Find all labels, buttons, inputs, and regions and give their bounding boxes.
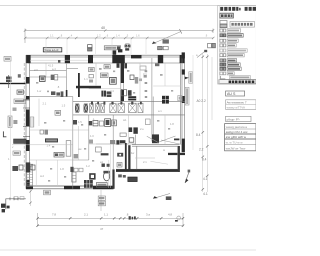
interior label F box — [40, 76, 46, 81]
mid boxes e — [130, 75, 138, 84]
svg-text:1.4: 1.4 — [116, 34, 120, 38]
left wall outer dashed face — [23, 63, 25, 186]
svg-text:w.2: w.2 — [40, 174, 45, 178]
heavy property line left — [0, 83, 25, 84]
stairs against left wall lower — [27, 164, 33, 186]
legend row 1 — [220, 29, 241, 32]
mid cluster b — [121, 89, 131, 95]
legend row 6 — [220, 54, 244, 57]
legend title row — [220, 7, 256, 11]
window sill line — [30, 59, 88, 61]
legend row 11 — [221, 76, 251, 79]
svg-text:a1: a1 — [100, 160, 103, 164]
legend inner border — [218, 6, 220, 85]
svg-text:2.0: 2.0 — [34, 68, 38, 72]
corridor dark wall — [125, 143, 127, 169]
legend header symbol + note box — [220, 21, 255, 28]
right ledge — [168, 153, 185, 155]
legend row 5 — [220, 49, 247, 52]
bottom-right room walls — [132, 145, 179, 170]
interior dark wall segments — [66, 63, 124, 101]
svg-text:.4w: .4w — [130, 151, 134, 155]
kitchen dark cluster top — [128, 96, 169, 104]
bottom-center room fixtures — [72, 160, 110, 188]
svg-text:1.1: 1.1 — [50, 34, 54, 38]
tiny glyph f — [139, 79, 142, 82]
bottom-right leader — [153, 194, 171, 201]
top dim small numbers — [50, 34, 208, 38]
speckle marks — [36, 68, 173, 182]
top small symbol pair 1 — [88, 45, 92, 51]
svg-text:2.4: 2.4 — [110, 89, 114, 93]
right info box B — [226, 100, 256, 110]
sheet top border — [0, 5, 256, 6]
sheet bottom border — [0, 250, 256, 251]
svg-text:p/bup- P*-: p/bup- P*- — [227, 117, 241, 121]
left wall door symbols row — [12, 162, 35, 172]
svg-text:1.8: 1.8 — [170, 122, 174, 126]
mid small boxes d — [89, 75, 93, 83]
svg-text:1.2: 1.2 — [86, 164, 90, 168]
left margin CtO box — [17, 90, 24, 94]
bottom wall — [26, 186, 114, 189]
svg-text:awbgn RU 4 ww: awbgn RU 4 ww — [226, 130, 249, 134]
svg-text:1.5: 1.5 — [78, 120, 82, 124]
right wall piers — [182, 52, 185, 152]
right diagonal mark — [185, 170, 190, 183]
bottom dimension line 2 — [38, 225, 184, 227]
central-lower fixture boxes — [66, 119, 150, 159]
svg-text:1.2: 1.2 — [97, 34, 101, 38]
svg-text:1.6: 1.6 — [136, 34, 140, 38]
svg-text:1.1: 1.1 — [84, 77, 88, 81]
legend row 7 — [220, 59, 237, 62]
interior wall verticals — [67, 58, 154, 189]
bottom jog wall — [112, 169, 114, 188]
svg-text:8.4: 8.4 — [202, 158, 207, 162]
svg-text:41.5: 41.5 — [48, 63, 54, 67]
svg-text:w1: w1 — [123, 118, 127, 122]
svg-text:1.1: 1.1 — [104, 213, 108, 217]
bottom dim1 numbers — [52, 213, 172, 217]
window mark — [58, 60, 60, 63]
legend row 2 — [220, 34, 243, 38]
svg-text:3.a: 3.a — [146, 213, 150, 217]
svg-text:4.1: 4.1 — [203, 177, 208, 181]
interior box b — [100, 73, 108, 78]
left wall lines — [26, 55, 30, 189]
interior box c — [140, 66, 146, 70]
property line cross symbol — [6, 75, 12, 88]
right dim ticks — [202, 56, 209, 191]
left margin vertical box — [8, 116, 12, 127]
legend row 9 — [220, 67, 241, 70]
svg-text:w. w TU-w w: w. w TU-w w — [226, 140, 244, 144]
legend row 10 — [220, 72, 234, 75]
label box Sww a.Lvl — [43, 48, 62, 53]
top small box — [126, 44, 130, 47]
box right of jog — [117, 163, 122, 168]
building outer top wall lines — [26, 55, 185, 63]
extension ticks above top wall — [46, 38, 146, 54]
svg-text:47: 47 — [100, 227, 104, 231]
scattered tiny texts — [8, 67, 174, 178]
bottom dim1 ticks — [36, 217, 184, 219]
hatch boxes in band — [75, 104, 88, 113]
mid dark cluster a — [101, 91, 111, 97]
right title block table — [225, 124, 256, 151]
svg-text:2.2: 2.2 — [199, 148, 204, 152]
svg-text:wwwg jawrww.a: wwwg jawrww.a — [226, 125, 248, 129]
svg-text:1.0: 1.0 — [90, 134, 94, 138]
right small box — [178, 96, 182, 101]
interior box a — [89, 67, 95, 71]
top dark glyph pair — [113, 49, 123, 55]
closet partition line — [38, 99, 40, 126]
boxes top of bottom room — [74, 168, 83, 172]
right wing faint lines — [153, 63, 180, 86]
left wall ticks — [23, 100, 30, 137]
dark fixture box bottom room — [102, 164, 105, 167]
interior wall horizontals — [30, 69, 136, 161]
dark label strip mid-left — [45, 138, 58, 142]
bottom-right room right dark wall — [178, 146, 180, 172]
svg-text:1.4: 1.4 — [47, 144, 51, 148]
right outside vertical label box 2 — [185, 87, 189, 105]
label ERE dark — [128, 177, 137, 182]
svg-text:4.8: 4.8 — [168, 213, 172, 217]
band top scribble marks — [91, 102, 142, 105]
top dark pair right — [125, 45, 131, 51]
dark cluster corridor top — [116, 140, 125, 144]
label box below mid-left — [54, 152, 64, 157]
left vertical dim line — [10, 62, 12, 198]
right dim labels — [196, 99, 208, 181]
bottom-right heavy edge — [116, 169, 179, 172]
legend-side small boxes — [208, 43, 216, 47]
svg-text:1.5: 1.5 — [62, 104, 66, 108]
legend row 8 — [220, 63, 240, 66]
interior light room lines — [30, 63, 166, 160]
left margin n glyphs — [18, 74, 21, 77]
room partition light — [109, 145, 111, 188]
room divider light 2 — [57, 160, 59, 186]
right info box A — [226, 91, 245, 96]
corridor light line — [128, 115, 130, 145]
svg-text:40: 40 — [101, 26, 105, 30]
left tiny box — [13, 108, 17, 111]
right info box C — [226, 116, 251, 121]
left margin dark box WATWR — [14, 139, 27, 143]
bottom-right room top-right tick — [174, 139, 179, 141]
svg-text:A0 2.2: A0 2.2 — [197, 99, 206, 103]
right outside vertical label box 1 — [189, 72, 193, 83]
top dimension line 1 — [25, 29, 213, 44]
interior box mid box55 — [55, 110, 61, 115]
svg-text:Aw wwwwwu 7: Aw wwwwwu 7 — [227, 101, 247, 105]
label below left-bottom — [44, 190, 51, 195]
legend bottom band — [219, 80, 256, 84]
interior cluster mid-left — [51, 91, 63, 97]
svg-text:8.4: 8.4 — [196, 133, 201, 137]
svg-text:a.1: a.1 — [158, 109, 162, 113]
svg-text:a.4: a.4 — [52, 67, 56, 71]
dark marks left of room wall — [70, 167, 73, 172]
top leader annotation — [152, 29, 182, 44]
central thick hatched wall band — [73, 101, 185, 115]
extension line right of wall — [192, 55, 194, 150]
bottom-center vertical dim — [98, 190, 105, 211]
left margin small box — [13, 120, 17, 124]
left margin box 2 — [13, 151, 20, 155]
small boxes above strip — [40, 130, 48, 135]
svg-text:4.1: 4.1 — [203, 192, 208, 196]
bottom-left small ticks on step — [10, 197, 18, 200]
wall box small — [73, 120, 77, 125]
svg-text:2.1: 2.1 — [84, 213, 88, 217]
svg-text:2.1: 2.1 — [143, 160, 147, 164]
svg-text:3.1: 3.1 — [143, 72, 147, 76]
svg-text:uw: uw — [78, 148, 81, 151]
legend row 4 — [220, 44, 236, 47]
legend dark code box — [220, 13, 234, 18]
svg-text:Sww a.Lvl: Sww a.Lvl — [44, 48, 58, 52]
svg-text:wwwy wTTVA: wwwy wTTVA — [227, 105, 245, 109]
interior label pair — [51, 75, 58, 80]
bottom wall piers — [26, 186, 114, 189]
left margin box C5 — [4, 57, 11, 62]
legend row 3 — [220, 39, 238, 42]
legend panel frame — [218, 6, 257, 85]
right vertical dimension lines — [203, 54, 212, 192]
upper room divider box — [104, 65, 110, 69]
left margin label Put — [14, 99, 26, 103]
svg-text:a'w gRU wW w: a'w gRU wW w — [226, 135, 247, 139]
svg-text:2.1: 2.1 — [43, 102, 47, 106]
bottom-right room left dark wall — [128, 145, 130, 171]
interior glyph right wing — [155, 63, 159, 66]
top wall piers — [26, 55, 185, 63]
bottom dimension line 1 — [38, 213, 184, 227]
top dimension line 2 with ticks — [25, 37, 213, 39]
wing partition small marks — [144, 70, 148, 98]
mid label box c — [110, 77, 117, 84]
room divider light — [35, 160, 37, 186]
wc dark cluster — [128, 127, 159, 143]
svg-text:2.e: 2.e — [140, 127, 144, 131]
top label CRD — [104, 46, 120, 50]
interior horizontal partition dark — [76, 86, 101, 89]
extra light vertical — [78, 126, 80, 160]
small glyphs below bottom wall — [118, 174, 126, 177]
svg-text:.8: .8 — [126, 213, 129, 217]
svg-text:1.w: 1.w — [37, 89, 41, 93]
room diagonals bottom-right — [147, 136, 182, 145]
legend-side leader — [196, 50, 207, 58]
below-wall vertical dim — [29, 190, 31, 206]
right wall lines — [180, 52, 184, 152]
svg-text:AU S: AU S — [227, 92, 236, 96]
step tick boxes — [14, 197, 24, 200]
svg-text:1.8: 1.8 — [60, 167, 64, 171]
top wall flanking boxes — [117, 63, 128, 68]
top boxes right wing — [158, 46, 169, 49]
long light partition line — [12, 144, 73, 146]
left margin L mark — [3, 131, 6, 136]
bottom-right room interior diagonal — [151, 161, 169, 164]
bottom-left corner step — [6, 199, 26, 210]
svg-text:wwJW wr Tww: wwJW wr Tww — [226, 146, 246, 150]
right wall arrow — [185, 77, 189, 80]
stairs against left wall upper — [30, 117, 34, 127]
svg-text:w: w — [163, 149, 165, 152]
svg-text:7.8: 7.8 — [52, 213, 56, 217]
bottom-left glyphs — [1, 204, 10, 213]
left wall piers — [26, 77, 30, 189]
